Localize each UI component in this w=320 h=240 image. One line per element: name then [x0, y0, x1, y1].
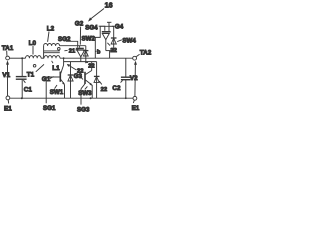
- svg-text:G2: G2: [75, 20, 84, 27]
- diode SW1: [68, 62, 74, 99]
- terminal TA1: [2, 45, 14, 60]
- node b wire to G4: [95, 26, 109, 58]
- svg-text:21: 21: [69, 49, 76, 55]
- svg-text:SW4: SW4: [122, 37, 136, 44]
- svg-text:SG1: SG1: [43, 105, 56, 112]
- label 22 (G4): [107, 43, 116, 54]
- voltage arrow V1: [2, 60, 10, 95]
- label b: [96, 49, 101, 55]
- junction dot C1 bus: [21, 97, 23, 99]
- svg-text:G3: G3: [74, 73, 83, 80]
- diode SW4: [109, 26, 117, 50]
- label SG4: [85, 25, 105, 32]
- label 22 (G2 diode): [85, 62, 95, 69]
- transistor G4: [102, 22, 114, 58]
- svg-text:V2: V2: [130, 75, 138, 82]
- svg-text:E1: E1: [4, 106, 12, 113]
- svg-text:G4: G4: [115, 24, 124, 31]
- wire L1 to TA2: [60, 57, 133, 59]
- main wire top: [10, 57, 26, 59]
- svg-text:SW2: SW2: [82, 36, 96, 43]
- svg-text:L2: L2: [47, 26, 55, 33]
- svg-text:L0: L0: [29, 40, 37, 47]
- rail wire: [64, 61, 97, 63]
- wire L2 to G2: [60, 45, 86, 47]
- gate lead SG3: [77, 84, 90, 114]
- transistor G3: [85, 62, 92, 99]
- terminal E1 right: [132, 96, 140, 111]
- label G4: [112, 24, 124, 31]
- svg-text:C1: C1: [24, 87, 33, 94]
- wire gap L0-L1: [41, 57, 44, 59]
- label SW3: [78, 86, 92, 97]
- polarity dot T1: [33, 65, 36, 68]
- svg-text:22: 22: [101, 87, 107, 93]
- svg-text:TA1: TA1: [2, 45, 14, 52]
- transformer T1 core: [27, 51, 60, 79]
- svg-text:22: 22: [110, 48, 116, 54]
- junction dot G3 bus: [90, 97, 92, 99]
- terminal TA2: [133, 50, 152, 61]
- voltage arrow V2: [130, 61, 138, 96]
- diode SW2: [83, 46, 88, 62]
- svg-text:b: b: [97, 49, 101, 55]
- gate lead SG1: [43, 77, 60, 112]
- svg-text:E1: E1: [132, 105, 140, 112]
- label G2: [75, 20, 84, 44]
- capacitor C1: [16, 58, 33, 98]
- svg-text:L1: L1: [52, 65, 60, 72]
- node a stub: [63, 58, 65, 65]
- svg-text:T1: T1: [27, 72, 35, 79]
- svg-text:SW3: SW3: [78, 90, 92, 97]
- transistor G1: [60, 65, 65, 98]
- label 16: [88, 1, 113, 22]
- label 22 (node a arrow): [67, 64, 84, 75]
- terminal E1 left: [4, 96, 12, 113]
- label SW4: [117, 37, 136, 44]
- svg-text:16: 16: [105, 1, 113, 10]
- inductor L1: [44, 56, 60, 72]
- diode SW3: [94, 62, 100, 99]
- svg-text:SW1: SW1: [50, 89, 64, 96]
- bottom bus wire: [10, 97, 133, 99]
- label 22 (G3 diode): [99, 81, 107, 93]
- node junction C1 top: [21, 57, 23, 59]
- inductor L0: [26, 40, 42, 58]
- label G3: [74, 73, 83, 80]
- inductor L2: [44, 26, 61, 59]
- label 21: [64, 49, 79, 55]
- svg-text:SG2: SG2: [58, 36, 71, 43]
- svg-text:C2: C2: [112, 85, 121, 92]
- transistor G2: [76, 46, 85, 62]
- capacitor C2: [112, 58, 130, 98]
- svg-text:SG3: SG3: [77, 107, 90, 114]
- junction dot C2 bus: [125, 97, 127, 99]
- label SW1: [50, 85, 64, 96]
- svg-text:V1: V1: [2, 72, 10, 79]
- label SG2: [58, 36, 78, 48]
- svg-text:TA2: TA2: [140, 50, 152, 57]
- svg-text:SG4: SG4: [85, 25, 98, 32]
- label G1: [42, 76, 54, 83]
